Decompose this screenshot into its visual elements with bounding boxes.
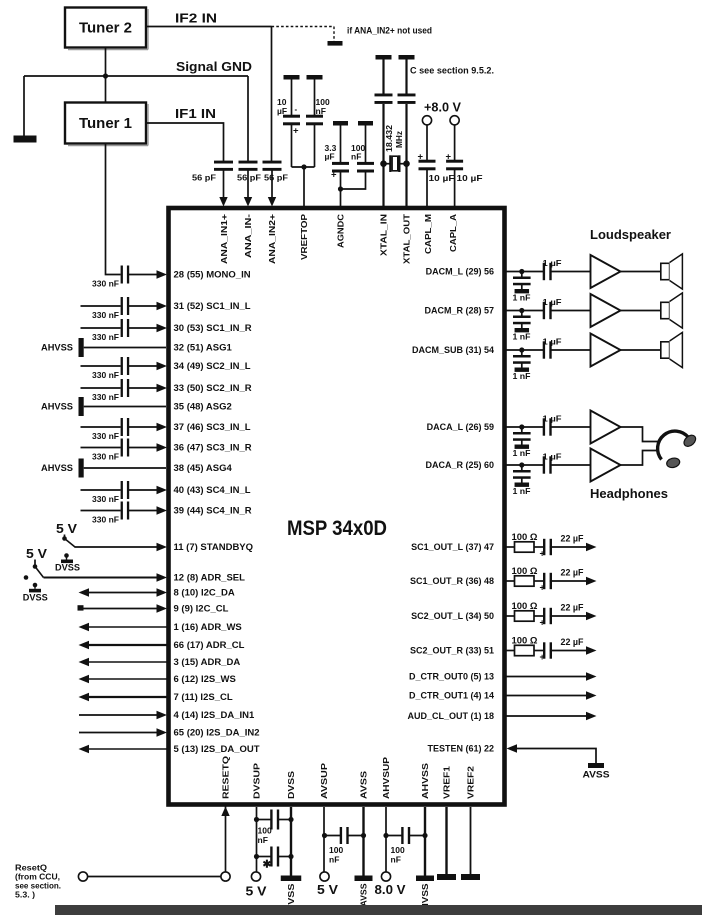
arrow into STANDBYQ [157,543,168,551]
capacitor 1uF (DACA_R) [543,456,545,473]
wire resistor to cap (SC2_OUT_R) [534,650,543,652]
terminal ResetQ (chip side) [221,872,230,881]
capacitor C 3.3uF (AGNDC) [332,162,349,165]
svg-text:RESETQ: RESETQ [221,756,231,799]
wire DACM_SUB from chip [505,349,544,351]
capacitor 1nF (DACM_R) [513,316,531,319]
arrow into SC2_IN_R [157,384,168,392]
wire gnd to 100nF [314,80,316,116]
svg-text:330 nF: 330 nF [92,370,119,380]
wire cap to chip [223,170,225,198]
wire 1nF to gnd (DACM_L) [521,284,523,289]
switch contact open (ADR_SEL) [24,575,29,580]
switch contact DVSS (STANDBYQ) [64,553,69,558]
wire DACM_L from chip [505,271,544,273]
capacitor 1nF (DACA_R) [513,470,531,473]
svg-text:330 nF: 330 nF [92,514,119,524]
svg-text:DACA_L (26) 59: DACA_L (26) 59 [427,422,494,432]
wire ANA_IN2+ vertical drop [271,27,273,163]
wire IF2 IN from Tuner 2 [147,26,272,28]
capacitor 100nF (AHVSUP) [401,827,403,844]
wire ADR_DA [89,661,167,663]
wire input stub SC1_IN_R [81,327,121,329]
svg-text:Loudspeaker: Loudspeaker [590,227,671,242]
svg-text:AHVSS: AHVSS [420,763,430,799]
wire 1nF to gnd (DACA_R) [521,477,523,482]
svg-text:XTAL_OUT: XTAL_OUT [402,213,412,264]
capacitor C 100nF (VREFTOP) [306,115,323,118]
wire 330nF to chip (SC1_IN_R) [127,327,157,329]
wire elcap dvsup left [257,856,273,858]
arrow into SC4_IN_L [157,486,168,494]
wire SC1_OUT_R from chip [505,580,515,582]
arrow into I2S_DA_IN1 [157,711,168,719]
resistor 100 Ohm (SC2_OUT_R) [515,645,535,655]
arrow into SC3_IN_L [157,423,168,431]
wire resistor to cap (SC2_OUT_L) [534,615,543,617]
svg-text:Tuner 2: Tuner 2 [79,21,132,37]
switch S2 blade (ADR_SEL) [35,567,44,578]
wire input stub SC3_IN_L [81,426,121,428]
block Tuner 2 [65,8,148,50]
svg-text:9 (9) I2C_CL: 9 (9) I2C_CL [174,604,229,615]
wire ADR_SEL [44,577,158,579]
svg-text:36 (47) SC3_IN_R: 36 (47) SC3_IN_R [174,443,252,454]
ground AHVSS stub (ASG4) [79,459,84,478]
switch contact 5V (STANDBYQ) [62,536,67,541]
wire Signal GND horizontal [24,75,248,77]
svg-text:SC1_OUT_R (36) 48: SC1_OUT_R (36) 48 [410,576,494,586]
svg-text:MHz: MHz [395,131,404,148]
junction DVSS 100nF [288,817,293,822]
arrow into SC4_IN_R [157,506,168,514]
arrow out I2S_CL [79,693,90,701]
junction VREFTOP [301,164,306,169]
arrow out I2S_DA_OUT [79,745,90,753]
arrow into SC1_IN_L [157,302,168,310]
svg-text:10 µF: 10 µF [457,173,483,183]
wire DACM_SUB shunt stub [521,350,523,356]
svg-text:DVSS: DVSS [286,771,296,799]
svg-text:66 (17) ADR_CL: 66 (17) ADR_CL [174,640,245,651]
svg-text:+: + [446,152,452,163]
svg-text:28 (55) MONO_IN: 28 (55) MONO_IN [174,270,251,281]
svg-text:330 nF: 330 nF [92,451,119,461]
wire 330nF to chip (SC4_IN_L) [127,489,157,491]
ground AHVSS [416,876,434,882]
wire xtal cap2 to crystal [405,104,407,206]
svg-text:7 (11) I2S_CL: 7 (11) I2S_CL [174,692,233,703]
svg-text:✱: ✱ [263,859,272,871]
wire DACA_R to amp [550,464,591,466]
wire gnd to xtal cap 2 [405,60,407,97]
ground DVSS (STANDBYQ) [66,556,68,560]
wire input stub SC1_IN_L [81,305,121,307]
svg-text:1 µF: 1 µF [543,258,562,268]
ground (DACM_L 1nF) [515,289,530,293]
wire 8V to CAPL_A cap [454,125,456,161]
arrow into SC3_IN_R [157,443,168,451]
svg-text:VREF1: VREF1 [442,766,452,799]
capacitor 330nF (SC4_IN_R) [121,502,123,520]
svg-text:Tuner 1: Tuner 1 [79,116,132,132]
capacitor 330nF (SC2_IN_R) [121,379,123,397]
svg-text:330 nF: 330 nF [92,431,119,441]
wire AHVSUP [385,807,387,872]
svg-text:CAPL_M: CAPL_M [423,214,433,254]
wire I2C_DA [88,592,158,594]
svg-text:34 (49) SC2_IN_L: 34 (49) SC2_IN_L [174,361,251,372]
svg-text:65 (20) I2S_DA_IN2: 65 (20) I2S_DA_IN2 [174,728,260,739]
wire ANA_IN- vertical drop [247,76,249,162]
svg-text:AHVSS: AHVSS [41,343,73,353]
wire cap to output (SC2_OUT_L) [550,615,587,617]
svg-text:1 nF: 1 nF [513,293,531,303]
wire I2S_DA_OUT [89,748,167,750]
wire AHVSS [424,807,426,876]
arrow into I2C_DA [157,588,168,596]
wire SC2_OUT_R from chip [505,650,515,652]
capacitor 10uF (CAPL_M) [419,160,436,163]
wire Tuner1 to MONO_IN drop [106,144,121,275]
svg-text:+: + [540,652,545,662]
terminal 8.0 V (AHVSUP) [381,872,390,881]
svg-text:18.432: 18.432 [385,124,394,152]
svg-text:Signal GND: Signal GND [176,59,252,74]
wire VREF1 [445,807,447,874]
wire AHVSS to ASG1 [84,347,166,349]
svg-text:AHVSUP: AHVSUP [381,757,391,799]
junction XTAL_IN [380,160,387,167]
capacitor 56 pF (248) [239,161,258,164]
svg-text:Headphones: Headphones [590,486,668,501]
headphones icon [658,431,698,469]
svg-text:330 nF: 330 nF [92,332,119,342]
svg-text:8 (10) I2C_DA: 8 (10) I2C_DA [174,588,235,599]
resistor 100 Ohm (SC1_OUT_L) [515,542,535,552]
wire IF1 IN from Tuner 1 [147,123,224,162]
wire 330nF to chip (SC2_IN_R) [127,387,157,389]
svg-text:DACM_L (29) 56: DACM_L (29) 56 [426,267,494,277]
crystal X1 18.432 MHz [384,155,407,172]
wire DACM_R to amp [550,310,591,312]
svg-text:AVSUP: AVSUP [319,763,329,799]
svg-text:DVSUP: DVSUP [252,763,262,799]
svg-text:31 (52) SC1_IN_L: 31 (52) SC1_IN_L [174,301,251,312]
svg-text:+: + [418,152,424,163]
capacitor 100nF (AVSUP) [340,827,342,844]
svg-text:39 (44) SC4_IN_R: 39 (44) SC4_IN_R [174,506,252,517]
junction XTAL_OUT [403,160,410,167]
junction DVSS elcap [288,854,293,859]
capacitor 22uF (SC2_OUT_R) [543,642,545,658]
svg-text:VREF2: VREF2 [466,766,476,799]
ground bar above 100nF (AGNDC) [358,121,373,126]
junction AHVSS 100nF [422,833,427,838]
amplifier (DACM_SUB) [591,334,621,367]
svg-text:56 pF: 56 pF [237,173,261,183]
svg-text:56 pF: 56 pF [192,173,216,183]
svg-text:5 V: 5 V [317,882,338,897]
wire gnd to 3.3uF [340,126,342,164]
svg-text:1 µF: 1 µF [543,297,562,307]
svg-text:1 nF: 1 nF [513,371,531,381]
wire I2S_DA_IN1 [79,714,158,716]
arrow into chip top at 223.5 [219,197,227,207]
wire DACA_L amp to headphones [621,427,658,442]
resistor 100 Ohm (SC1_OUT_R) [515,576,535,586]
wire DACA_R from chip [505,464,544,466]
capacitor C 100nF (AGNDC) [357,162,374,165]
capacitor 22uF (SC1_OUT_R) [543,573,545,589]
ground AVSS [355,876,373,882]
junction DVSUP elcap [254,854,259,859]
amplifier (DACM_L) [591,255,621,288]
capacitor 1uF (DACM_SUB) [543,341,545,358]
ground (DACA_L 1nF) [515,445,530,449]
svg-text:AHVSS: AHVSS [41,463,73,473]
arrow output SC2_OUT_R [586,646,597,654]
arrow out ADR_WS [79,623,90,631]
wire DACM_R shunt stub [521,311,523,317]
wire CAPL_M cap to chip [426,170,428,207]
wire RESETQ [225,807,227,872]
wire STANDBYQ [75,546,158,548]
svg-text:AVSS: AVSS [359,771,369,799]
svg-text:100: 100 [391,845,405,855]
svg-text:33 (50) SC2_IN_R: 33 (50) SC2_IN_R [174,383,252,394]
wire TESTEN [517,749,597,764]
wire Tuner2 to Tuner1 [105,48,107,103]
arrow output SC1_OUT_R [586,577,597,585]
svg-text:5.3. ): 5.3. ) [15,891,35,900]
arrow into MONO_IN [157,270,168,278]
junction AHVSUP 100nF [383,833,388,838]
resistor 100 Ohm (SC2_OUT_L) [515,611,535,621]
wire AGNDC to chip [340,189,342,206]
wire input stub SC2_IN_L [81,365,121,367]
ground bar above 10uF (VREFTOP) [284,75,300,80]
svg-text:ResetQ: ResetQ [15,864,48,873]
svg-text:22 µF: 22 µF [561,534,584,544]
wire DACA_R amp to headphones [621,451,658,466]
capacitor 56 pF (223.5) [214,161,233,164]
wire gnd to xtal cap 1 [382,60,384,97]
svg-text:1 µF: 1 µF [543,452,562,462]
switch S1 blade (STANDBYQ) [65,539,76,548]
svg-text:100 Ω: 100 Ω [512,601,538,611]
svg-text:100: 100 [258,826,272,836]
wire amp to speaker (DACM_L) [621,271,661,273]
arrow into SC2_IN_L [157,362,168,370]
svg-text:22 µF: 22 µF [561,637,584,647]
wire 330nF to chip (MONO_IN) [127,274,157,276]
wire 5V stub (ADR_SEL) [34,560,36,566]
arrow out ADR_DA [79,658,90,666]
svg-text:5 (13) I2S_DA_OUT: 5 (13) I2S_DA_OUT [174,744,260,755]
svg-text:330 nF: 330 nF [92,278,119,288]
svg-text:µF: µF [325,152,335,162]
junction DVSUP 100nF [254,817,259,822]
svg-text:if ANA_IN2+ not used: if ANA_IN2+ not used [347,26,432,36]
wire AVSUP [323,807,325,872]
svg-text:330 nF: 330 nF [92,494,119,504]
wire ahvsup cap left [386,835,403,837]
wire 5V stub (STANDBYQ) [64,535,66,538]
capacitor C (XTAL_OUT) see 9.5.2 [398,94,416,97]
svg-text:1 (16) ADR_WS: 1 (16) ADR_WS [174,622,242,633]
junction DACA_L [519,424,524,429]
wire DVSS [290,807,292,876]
svg-text:5 V: 5 V [246,884,267,899]
arrow output AUD_CL_OUT [586,712,597,720]
wire signal gnd drop left [23,76,25,136]
wire D_CTR_OUT1 [505,695,587,697]
wire 330nF to chip (SC2_IN_L) [127,365,157,367]
wire AUD_CL_OUT [505,715,587,717]
ground VREF1 [437,874,456,880]
svg-text:1 µF: 1 µF [543,337,562,347]
wire amp to speaker (DACM_SUB) [621,349,661,351]
svg-text:-: - [295,105,298,114]
svg-text:see section.: see section. [15,882,61,891]
amplifier (DACM_R) [591,294,621,327]
ground AVSS (TESTEN) [588,763,604,768]
capacitor 1uF (DACM_R) [543,302,545,319]
svg-text:SC1_OUT_L (37) 47: SC1_OUT_L (37) 47 [411,542,494,552]
arrow out I2S_WS [79,675,90,683]
wire 330nF to chip (SC1_IN_L) [127,305,157,307]
svg-text:38 (45) ASG4: 38 (45) ASG4 [174,463,233,474]
svg-text:8.0 V: 8.0 V [375,882,406,897]
ground signal GND (tuners) [14,136,37,143]
svg-text:32 (51) ASG1: 32 (51) ASG1 [174,343,233,354]
svg-text:5 V: 5 V [56,521,77,536]
capacitor 330nF (SC1_IN_L) [121,297,123,315]
arrow output D_CTR_OUT1 [586,691,597,699]
svg-text:CAPL_A: CAPL_A [448,214,458,252]
wire input stub SC3_IN_R [81,447,121,449]
ground (DACM_SUB 1nF) [515,368,530,372]
capacitor 1uF (DACA_L) [543,418,545,435]
svg-text:30 (53) SC1_IN_R: 30 (53) SC1_IN_R [174,323,252,334]
terminal square I2C_CL [78,605,84,610]
terminal ResetQ (CCU side) [78,872,87,881]
capacitor C 10uF (VREFTOP) [283,115,300,118]
ground DVSS [281,876,302,882]
wire amp to speaker (DACM_R) [621,310,661,312]
wire DACM_L to amp [550,271,591,273]
svg-text:AGNDC: AGNDC [336,214,346,248]
svg-text:+: + [540,618,545,628]
svg-text:D_CTR_OUT1 (4) 14: D_CTR_OUT1 (4) 14 [409,691,494,701]
capacitor 330nF (SC3_IN_R) [121,439,123,457]
wire ResetQ horizontal [88,876,222,878]
wire DACA_R shunt stub [521,465,523,471]
amplifier (DACA_L) [591,411,621,444]
wire input stub SC4_IN_R [81,510,121,512]
wire DVSUP [256,807,258,872]
wire 1nF to gnd (DACA_L) [521,439,523,444]
loudspeaker (DACM_L) [661,254,683,289]
ground (if ANA_IN2+ not used) [328,41,343,46]
svg-text:1 nF: 1 nF [513,486,531,496]
capacitor 10uF (CAPL_A) [446,160,463,163]
capacitor 330nF (MONO_IN) [121,266,123,284]
svg-text:100 Ω: 100 Ω [512,636,538,646]
wire 100nF agndc to junction [341,172,366,190]
svg-text:C see section 9.5.2.: C see section 9.5.2. [410,66,494,76]
svg-text:40 (43) SC4_IN_L: 40 (43) SC4_IN_L [174,485,251,496]
wire resistor to cap (SC1_OUT_L) [534,546,543,548]
wire I2C_CL [81,608,158,610]
wire DACA_L shunt stub [521,427,523,433]
svg-text:37 (46) SC3_IN_L: 37 (46) SC3_IN_L [174,422,251,433]
capacitor 1nF (DACM_L) [513,277,531,280]
wire ADR_WS [89,626,167,628]
svg-text:35 (48) ASG2: 35 (48) ASG2 [174,402,232,413]
wire VREF2 [470,807,472,874]
svg-text:DVSS: DVSS [23,593,48,603]
wire dashed if-unused vertical [333,27,335,42]
wire 1nF to gnd (DACM_R) [521,323,523,328]
capacitor 330nF (SC3_IN_L) [121,418,123,436]
svg-text:SC2_OUT_R (33) 51: SC2_OUT_R (33) 51 [410,646,494,656]
svg-text:TESTEN (61) 22: TESTEN (61) 22 [427,744,494,754]
wire I2S_DA_IN2 [79,732,158,734]
wire 330nF to chip (SC4_IN_R) [127,510,157,512]
capacitor 56 pF (272) [263,161,282,164]
wire I2S_WS [89,678,167,680]
svg-text:SC2_OUT_L (34) 50: SC2_OUT_L (34) 50 [411,611,494,621]
ground AHVSS stub (ASG2) [79,397,84,416]
capacitor 330nF (SC1_IN_R) [121,319,123,337]
loudspeaker (DACM_SUB) [661,332,683,367]
svg-text:AVSS: AVSS [583,770,610,780]
svg-text:3 (15) ADR_DA: 3 (15) ADR_DA [174,657,241,668]
arrow output SC1_OUT_L [586,543,597,551]
svg-text:DVSS: DVSS [55,563,80,573]
amplifier (DACA_R) [591,449,621,482]
junction AVSS 100nF [361,833,366,838]
switch contact DVSS (ADR_SEL) [33,583,38,588]
wire dashed if-unused horizontal [272,26,335,28]
junction DACM_L [519,269,524,274]
svg-text:22 µF: 22 µF [561,568,584,578]
svg-text:56 pF: 56 pF [264,173,288,183]
svg-text:5 V: 5 V [26,546,47,561]
ground bar above 3.3uF (AGNDC) [333,121,348,126]
arrow into I2C_CL [157,604,168,612]
arrow into TESTEN [507,744,518,752]
junction AVSUP 100nF [322,833,327,838]
junction tuner stack / signal gnd [103,73,108,78]
terminal 5 V (DVSUP) [251,872,260,881]
arrow output D_CTR_OUT0 [586,672,597,680]
capacitor electrolytic (DVSUP) [270,847,272,867]
wire 8V to CAPL_M cap [426,125,428,161]
svg-text:+: + [540,549,545,559]
svg-text:+8.0 V: +8.0 V [424,100,461,115]
svg-text:ANA_IN2+: ANA_IN2+ [267,214,277,264]
wire AVSS [362,807,364,876]
junction DACA_R [519,462,524,467]
svg-text:100 Ω: 100 Ω [512,532,538,542]
wire AHVSS to ASG2 [84,406,166,408]
capacitor C (XTAL_IN) see 9.5.2 [375,94,393,97]
wire DACM_SUB to amp [550,349,591,351]
wire 330nF to chip (SC3_IN_R) [127,447,157,449]
